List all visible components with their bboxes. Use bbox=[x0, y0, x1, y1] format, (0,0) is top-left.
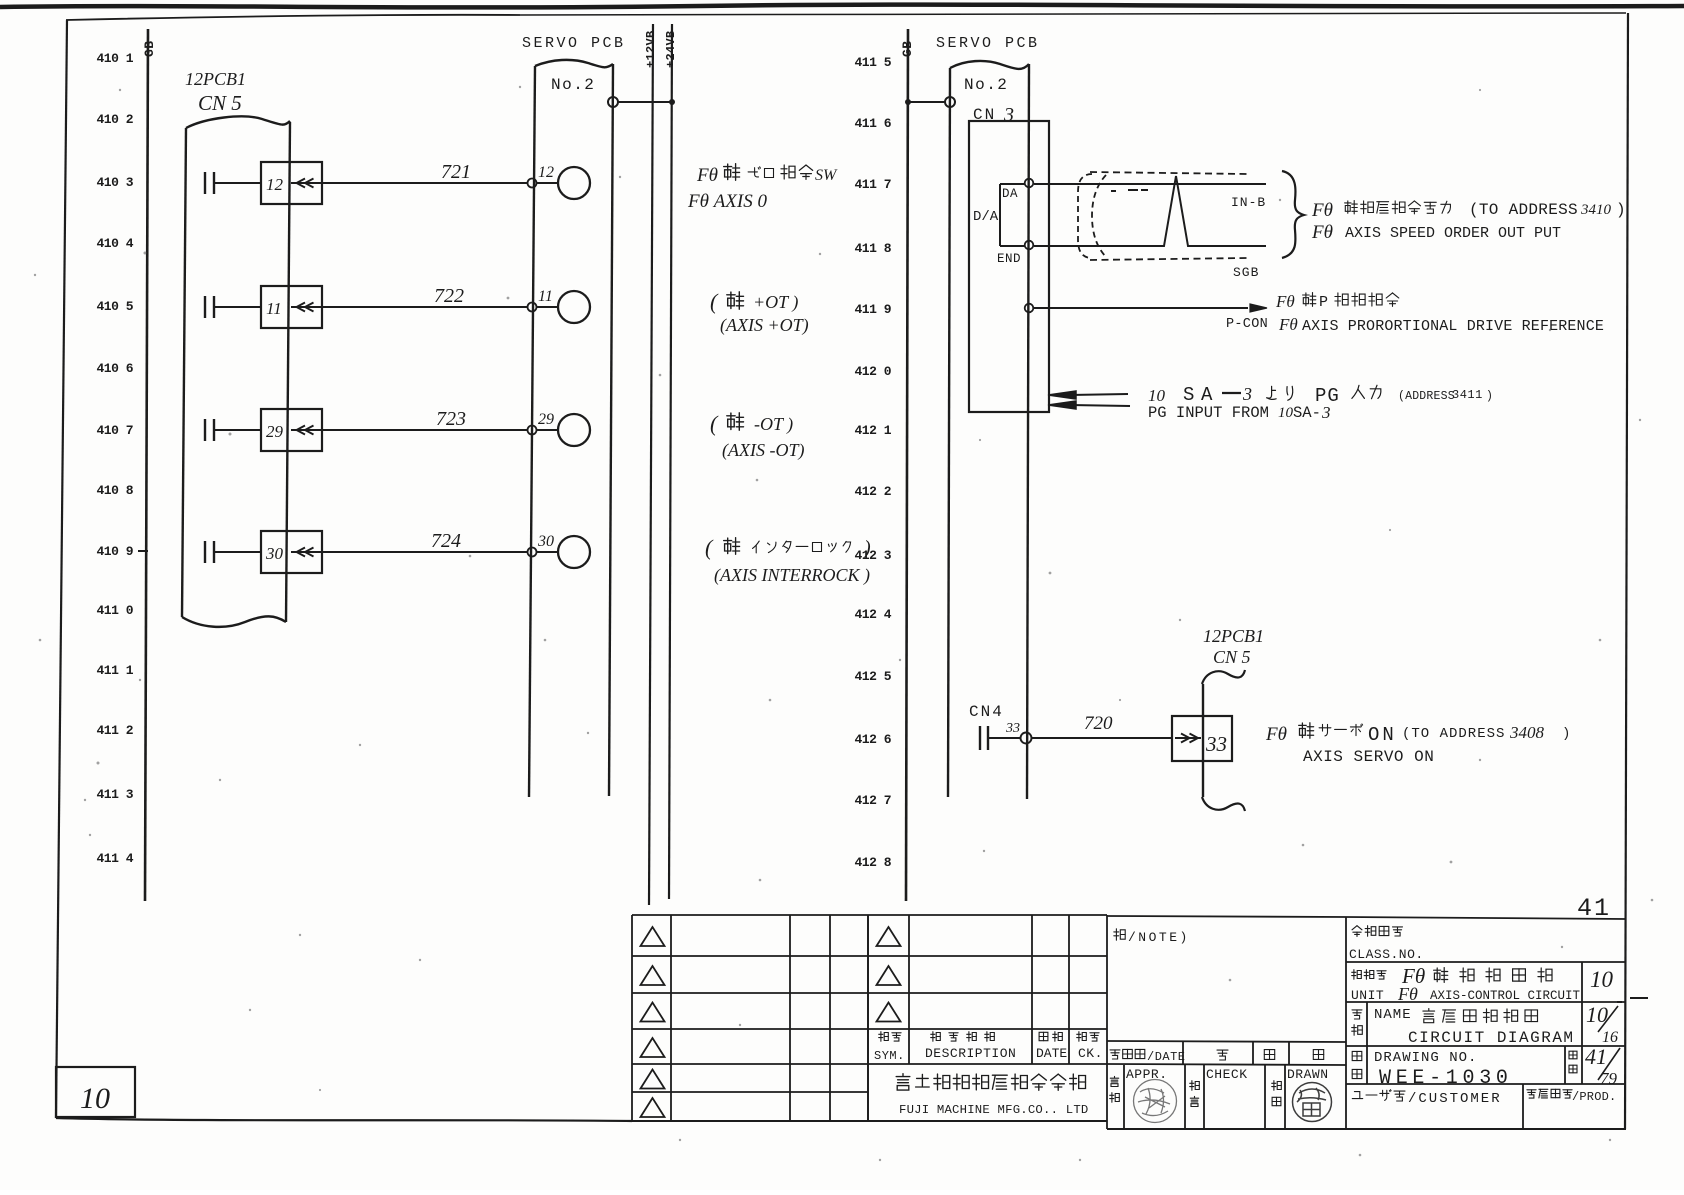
svg-text:CHECK: CHECK bbox=[1206, 1067, 1248, 1082]
svg-text:SGB: SGB bbox=[1233, 265, 1259, 280]
svg-text:411 7: 411 7 bbox=[854, 177, 891, 192]
svg-text:410 4: 410 4 bbox=[96, 236, 133, 251]
svg-text:SA-: SA- bbox=[1293, 404, 1321, 422]
svg-text:410 5: 410 5 bbox=[96, 299, 133, 314]
svg-text:10: 10 bbox=[80, 1082, 110, 1115]
svg-text:AXIS PRORORTIONAL DRIVE REFERE: AXIS PRORORTIONAL DRIVE REFERENCE bbox=[1302, 318, 1604, 335]
svg-text:UNIT: UNIT bbox=[1351, 988, 1384, 1003]
svg-text:DATE: DATE bbox=[1036, 1046, 1067, 1061]
svg-text:30: 30 bbox=[537, 533, 554, 550]
svg-text:721: 721 bbox=[441, 161, 471, 183]
svg-text:410 9: 410 9 bbox=[96, 544, 133, 559]
svg-text:Fθ: Fθ bbox=[1278, 315, 1298, 334]
svg-text:WEE-1030: WEE-1030 bbox=[1379, 1067, 1513, 1090]
svg-text:A: A bbox=[1201, 384, 1213, 406]
svg-text:GB: GB bbox=[142, 40, 157, 57]
svg-text:No.2: No.2 bbox=[964, 76, 1008, 94]
svg-text:): ) bbox=[863, 537, 871, 559]
svg-text:724: 724 bbox=[431, 530, 461, 552]
svg-text:CN4: CN4 bbox=[969, 703, 1004, 721]
svg-text:): ) bbox=[1486, 390, 1493, 403]
svg-text:IN-B: IN-B bbox=[1231, 195, 1266, 210]
svg-text:CLASS.NO.: CLASS.NO. bbox=[1349, 947, 1424, 962]
svg-text:720: 720 bbox=[1084, 713, 1113, 734]
svg-text:/CUSTOMER: /CUSTOMER bbox=[1408, 1091, 1502, 1107]
svg-text:AXIS SERVO ON: AXIS SERVO ON bbox=[1303, 748, 1434, 766]
svg-text:/DATE: /DATE bbox=[1147, 1050, 1186, 1064]
svg-text:(AXIS -OT): (AXIS -OT) bbox=[722, 440, 804, 461]
svg-text:41: 41 bbox=[1585, 1044, 1607, 1069]
svg-text:SYM.: SYM. bbox=[874, 1049, 905, 1063]
svg-text:Fθ: Fθ bbox=[1397, 984, 1418, 1004]
svg-text:(AXIS +OT): (AXIS +OT) bbox=[720, 315, 809, 336]
svg-text:Fθ: Fθ bbox=[1311, 222, 1333, 243]
svg-text:P-CON: P-CON bbox=[1226, 317, 1268, 332]
svg-text:3408: 3408 bbox=[1509, 723, 1545, 742]
svg-text:410 6: 410 6 bbox=[96, 361, 133, 376]
svg-text:412 0: 412 0 bbox=[854, 364, 891, 379]
svg-text:Fθ: Fθ bbox=[1311, 200, 1333, 221]
svg-text:412 7: 412 7 bbox=[854, 793, 891, 808]
svg-text:Fθ AXIS 0: Fθ AXIS 0 bbox=[687, 191, 767, 212]
svg-text:D/A: D/A bbox=[973, 209, 999, 225]
svg-text:GB: GB bbox=[900, 40, 915, 57]
svg-text:Fθ: Fθ bbox=[696, 165, 718, 186]
svg-text:411 1: 411 1 bbox=[96, 663, 133, 678]
svg-text:33: 33 bbox=[1005, 721, 1020, 736]
svg-text:3411: 3411 bbox=[1452, 388, 1483, 402]
svg-text:411 2: 411 2 bbox=[96, 723, 133, 738]
svg-text:(ADDRESS: (ADDRESS bbox=[1398, 390, 1455, 403]
svg-text:CIRCUIT DIAGRAM: CIRCUIT DIAGRAM bbox=[1408, 1029, 1575, 1047]
svg-text:+OT ): +OT ) bbox=[753, 292, 798, 313]
svg-text:412 8: 412 8 bbox=[854, 855, 891, 870]
svg-text:412 6: 412 6 bbox=[854, 732, 891, 747]
svg-text:723: 723 bbox=[436, 408, 466, 430]
svg-text:410 8: 410 8 bbox=[96, 483, 133, 498]
svg-text:412 1: 412 1 bbox=[854, 423, 891, 438]
svg-text:AXIS-CONTROL CIRCUIT: AXIS-CONTROL CIRCUIT bbox=[1430, 989, 1581, 1003]
svg-text:ON: ON bbox=[1368, 724, 1397, 746]
svg-text:411 6: 411 6 bbox=[854, 116, 891, 131]
svg-text:SERVO PCB: SERVO PCB bbox=[522, 35, 626, 52]
svg-text:79: 79 bbox=[1600, 1069, 1618, 1088]
svg-text:722: 722 bbox=[434, 285, 464, 307]
svg-text:411 0: 411 0 bbox=[96, 603, 133, 618]
svg-text:+12VB: +12VB bbox=[644, 30, 658, 68]
svg-text:12PCB1: 12PCB1 bbox=[185, 69, 246, 89]
svg-text:): ) bbox=[1562, 726, 1570, 742]
svg-text:No.2: No.2 bbox=[551, 76, 595, 94]
svg-text:411 5: 411 5 bbox=[854, 55, 891, 70]
svg-text:411 9: 411 9 bbox=[854, 302, 891, 317]
svg-text:29: 29 bbox=[266, 422, 284, 441]
svg-text:3: 3 bbox=[1242, 384, 1252, 404]
svg-text:412 4: 412 4 bbox=[854, 607, 891, 622]
svg-text:DA: DA bbox=[1002, 187, 1018, 201]
svg-text:DRAWING NO.: DRAWING NO. bbox=[1374, 1050, 1477, 1066]
svg-text:(TO ADDRESS: (TO ADDRESS bbox=[1469, 201, 1578, 219]
svg-text:CN 5: CN 5 bbox=[198, 91, 242, 115]
svg-text:411 4: 411 4 bbox=[96, 851, 133, 866]
svg-text:410 2: 410 2 bbox=[96, 112, 133, 127]
svg-text:12: 12 bbox=[266, 175, 284, 194]
svg-text:33: 33 bbox=[1205, 732, 1227, 756]
svg-text:3410: 3410 bbox=[1580, 202, 1612, 218]
svg-text:10: 10 bbox=[1278, 405, 1294, 421]
svg-text:): ) bbox=[1616, 201, 1626, 219]
svg-text:410 7: 410 7 bbox=[96, 423, 133, 438]
svg-text:FUJI MACHINE MFG.CO.. LTD: FUJI MACHINE MFG.CO.. LTD bbox=[899, 1103, 1088, 1117]
svg-text:10: 10 bbox=[1148, 386, 1166, 405]
svg-text:END: END bbox=[997, 252, 1021, 266]
svg-text:12PCB1: 12PCB1 bbox=[1203, 626, 1264, 646]
svg-text:3: 3 bbox=[1003, 104, 1014, 126]
svg-text:SW: SW bbox=[815, 167, 838, 184]
svg-text:/PROD.: /PROD. bbox=[1572, 1090, 1616, 1104]
svg-text:412 3: 412 3 bbox=[854, 548, 891, 563]
svg-text:Fθ: Fθ bbox=[1265, 724, 1287, 745]
svg-text:410 1: 410 1 bbox=[96, 51, 133, 66]
svg-text:AXIS SPEED ORDER OUT PUT: AXIS SPEED ORDER OUT PUT bbox=[1345, 225, 1561, 242]
svg-text:/NOTE): /NOTE) bbox=[1128, 930, 1190, 945]
svg-text:CK.: CK. bbox=[1078, 1046, 1103, 1061]
svg-text:+24VB: +24VB bbox=[664, 30, 678, 68]
svg-text:-OT ): -OT ) bbox=[754, 414, 793, 435]
svg-text:411 8: 411 8 bbox=[854, 241, 891, 256]
svg-text:Fθ: Fθ bbox=[1275, 292, 1295, 311]
svg-text:S: S bbox=[1183, 384, 1194, 406]
svg-text:(TO ADDRESS: (TO ADDRESS bbox=[1402, 726, 1505, 742]
svg-text:412 2: 412 2 bbox=[854, 484, 891, 499]
svg-text:SERVO PCB: SERVO PCB bbox=[936, 35, 1040, 52]
svg-text:412 5: 412 5 bbox=[854, 669, 891, 684]
svg-text:410 3: 410 3 bbox=[96, 175, 133, 190]
svg-text:NAME: NAME bbox=[1374, 1007, 1412, 1023]
svg-text:11: 11 bbox=[266, 299, 282, 318]
svg-text:29: 29 bbox=[538, 411, 554, 428]
svg-text:P: P bbox=[1319, 294, 1328, 311]
svg-text:30: 30 bbox=[265, 544, 284, 563]
svg-text:3: 3 bbox=[1321, 403, 1331, 422]
svg-text:11: 11 bbox=[538, 288, 553, 305]
svg-text:APPR.: APPR. bbox=[1126, 1067, 1168, 1082]
svg-text:411 3: 411 3 bbox=[96, 787, 133, 802]
svg-text:(AXIS INTERROCK ): (AXIS INTERROCK ) bbox=[714, 565, 870, 586]
svg-text:12: 12 bbox=[538, 164, 554, 181]
svg-text:10: 10 bbox=[1590, 967, 1614, 992]
svg-text:DESCRIPTION: DESCRIPTION bbox=[925, 1046, 1016, 1061]
svg-text:DRAWN: DRAWN bbox=[1287, 1067, 1329, 1082]
svg-text:PG INPUT FROM: PG INPUT FROM bbox=[1148, 404, 1269, 422]
svg-text:CN 5: CN 5 bbox=[1213, 647, 1251, 667]
